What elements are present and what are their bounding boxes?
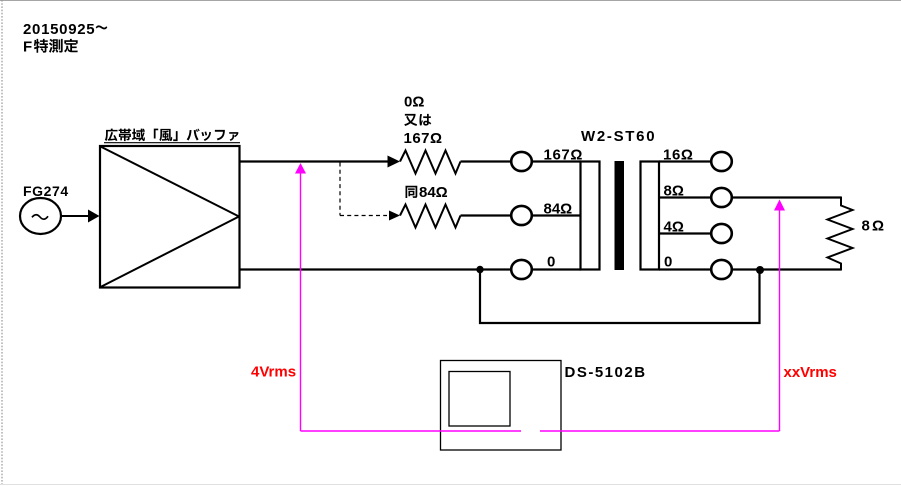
svg-text:W2-ST60: W2-ST60 [581, 128, 656, 145]
measurement arrowhead right at 8Ω wire [774, 200, 785, 211]
page bottom faint edge [0, 484, 901, 486]
page left dashed edge [1, 0, 3, 484]
svg-text:16Ω: 16Ω [663, 147, 694, 164]
terminal circle secondary 4Ω tap [711, 224, 732, 243]
buffer amplifier box 広帯域「風」バッファ [100, 146, 240, 288]
junction dot primary return [476, 266, 483, 273]
measurement probe line left (4Vrms) vertical [300, 172, 302, 431]
buffer label 広帯域「風」バッファ [105, 129, 238, 142]
terminal circle secondary 8Ω tap [711, 188, 732, 207]
wire buffer upper output [240, 160, 390, 162]
measurement probe line right (xxVrms) vertical [779, 209, 781, 431]
measurement probe line bottom right segment [540, 430, 780, 432]
transformer secondary winding box [641, 162, 660, 270]
arrowhead into buffer input [88, 210, 100, 223]
svg-text:0: 0 [664, 254, 672, 271]
terminal circle secondary 0 tap [711, 260, 732, 279]
oscilloscope screen [449, 372, 510, 427]
wire secondary 0 tap to load return [732, 268, 841, 270]
svg-text:F: F [23, 39, 32, 56]
wire terminal to transformer primary 0 tap [532, 268, 581, 270]
wire buffer lower output to 0 tap [240, 268, 512, 270]
arrowhead into resistor R2 [389, 211, 400, 221]
load resistor 8Ω vertical zigzag [828, 197, 853, 271]
terminal circle primary 84Ω tap [511, 206, 532, 225]
svg-text:167Ω: 167Ω [404, 130, 443, 147]
buffer triangle bottom edge [101, 217, 240, 288]
dashed branch wire vertical [339, 163, 341, 216]
svg-text:xxVrms: xxVrms [784, 364, 837, 381]
resistor R2 同84Ω zigzag [400, 205, 461, 228]
measurement probe line bottom left segment [301, 430, 522, 432]
wire generator to buffer [61, 215, 90, 217]
terminal circle primary 167Ω tap [511, 152, 532, 171]
page top edge [0, 0, 901, 2]
buffer label underline [104, 142, 240, 144]
buffer triangle top edge [101, 147, 240, 217]
resistor R1 0Ω/167Ω zigzag [400, 151, 461, 174]
svg-text:8Ω: 8Ω [862, 218, 887, 235]
svg-text:DS-5102B: DS-5102B [565, 364, 647, 381]
wire secondary 8Ω tap [659, 196, 712, 198]
svg-text:0Ω: 0Ω [404, 94, 424, 111]
svg-text:FG274: FG274 [23, 183, 69, 199]
wire secondary 16Ω tap [659, 160, 712, 162]
svg-text:84Ω: 84Ω [419, 184, 448, 201]
svg-text:8Ω: 8Ω [664, 183, 684, 200]
wire terminal to transformer primary 167Ω tap [532, 160, 581, 162]
signal generator FG274 circle [20, 198, 61, 234]
wire bottom return primary to secondary [480, 270, 760, 324]
junction dot secondary return [756, 266, 764, 274]
wire 8Ω tap to load [732, 196, 841, 198]
R2 value label 同84Ω [406, 184, 448, 201]
dashed branch wire horizontal [340, 215, 387, 217]
svg-text:4Ω: 4Ω [664, 219, 684, 236]
transformer core bar [615, 161, 625, 270]
terminal circle secondary 16Ω tap [711, 152, 732, 171]
wire R2 to terminal [461, 214, 512, 216]
R1 value label 0Ω 又は 167Ω [404, 94, 443, 148]
svg-text:167Ω: 167Ω [544, 147, 583, 164]
wire R1 to terminal [461, 160, 512, 162]
svg-text:0: 0 [547, 254, 555, 271]
measurement arrowhead left at buffer output [295, 163, 306, 174]
sine symbol [32, 215, 48, 219]
transformer primary winding box [581, 162, 600, 270]
arrowhead into resistor R1 [388, 156, 401, 168]
wire secondary 0 tap [659, 268, 712, 270]
oscilloscope DS-5102B body [441, 361, 562, 451]
svg-text:84Ω: 84Ω [544, 201, 573, 218]
wire secondary 4Ω tap [659, 232, 712, 234]
terminal circle primary 0 tap [511, 260, 532, 279]
svg-text:20150925: 20150925 [23, 21, 95, 38]
wire terminal to transformer primary 84Ω tap [532, 214, 581, 216]
svg-text:4Vrms: 4Vrms [251, 364, 296, 381]
